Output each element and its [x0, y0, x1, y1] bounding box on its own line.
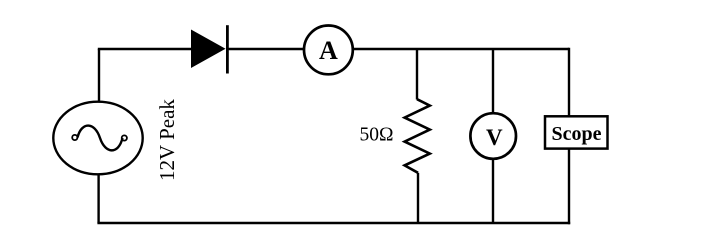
wire from scope box bottom to bottom wire [568, 149, 570, 225]
voltmeter bottom lead [492, 159, 494, 223]
svg-text:50Ω: 50Ω [360, 125, 394, 146]
wire bottom lead of source [97, 175, 99, 223]
svg-text:12V Peak: 12V Peak [155, 99, 179, 181]
ammeter U1 circle [304, 26, 353, 75]
resistor R1 bottom lead [417, 173, 419, 223]
diode D1 triangle [192, 30, 225, 67]
wire from diode cathode to ammeter [227, 48, 303, 50]
AC source left terminal dot [72, 135, 77, 140]
wire top horizontal from source to diode anode [98, 48, 192, 50]
svg-text:V: V [486, 125, 503, 150]
wire from ammeter to top-right corner [354, 48, 570, 50]
diode D1 cathode bar [226, 25, 229, 73]
AC source sine wave [78, 126, 123, 151]
scope box [545, 116, 608, 148]
svg-text:Scope: Scope [552, 123, 602, 145]
voltmeter top lead [492, 49, 494, 113]
AC source V1 ellipse [53, 102, 142, 175]
resistor R1 top lead [416, 49, 418, 100]
svg-text:A: A [319, 36, 338, 65]
resistor R1 zigzag 50 ohm [405, 99, 430, 173]
voltmeter U2 circle [470, 113, 516, 159]
wire top lead of source [98, 49, 100, 101]
AC source right terminal dot [122, 135, 127, 140]
wire right vertical from top corner to scope box [568, 48, 570, 117]
wire bottom horizontal [97, 222, 570, 225]
